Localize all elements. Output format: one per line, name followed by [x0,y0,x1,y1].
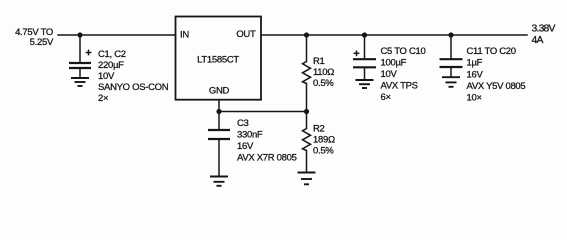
svg-text:AVX Y5V 0805: AVX Y5V 0805 [467,81,526,92]
svg-text:C11 TO C20: C11 TO C20 [467,46,516,57]
ground R2 [298,173,316,185]
svg-text:LT1585CT: LT1585CT [197,55,239,66]
svg-text:3.38V: 3.38V [532,24,556,35]
svg-text:10V: 10V [381,69,398,80]
ground C3 [210,177,228,186]
node VIN label 4.75V TO 5.25V [15,27,54,48]
regulator U1 LT1585CT [176,17,262,100]
svg-text:110Ω: 110Ω [313,67,334,78]
node VOUT label 3.38V 4A [532,24,556,47]
svg-text:10×: 10× [467,93,482,104]
node junction GND-C3 [216,109,221,114]
svg-text:16V: 16V [467,70,484,81]
svg-text:1µF: 1µF [467,58,483,69]
node junction C1 [77,32,82,37]
ground C5 [356,80,374,88]
svg-text:100µF: 100µF [381,58,407,69]
wire output rail [261,34,527,36]
label R1 values [313,56,334,89]
label C3 values [237,118,297,164]
capacitor C11-C20 [440,35,463,76]
svg-text:C1, C2: C1, C2 [98,49,126,60]
svg-text:6×: 6× [381,92,391,103]
resistor R1 [303,35,311,112]
svg-text:4A: 4A [532,35,544,46]
node junction C5 [362,32,367,37]
capacitor C5-C10 [353,35,376,79]
label C11 values [467,46,526,104]
svg-text:SANYO OS-CON: SANYO OS-CON [98,82,169,93]
svg-text:R1: R1 [313,56,325,67]
label C1 C2 values [98,49,169,104]
svg-text:10V: 10V [98,71,115,82]
svg-text:OUT: OUT [236,29,256,40]
label R2 values [313,124,335,157]
svg-text:0.5%: 0.5% [313,146,334,157]
svg-text:C5 TO C10: C5 TO C10 [381,46,426,57]
svg-text:2×: 2× [98,93,108,104]
svg-text:IN: IN [180,29,189,40]
svg-text:220µF: 220µF [98,60,124,71]
node junction R1 top [304,32,309,37]
wire ADJ node line [219,111,307,113]
wire GND pin [218,100,220,112]
capacitor C1 C2 [69,35,91,77]
svg-text:5.25V: 5.25V [30,37,54,48]
svg-text:0.5%: 0.5% [313,78,334,89]
svg-text:GND: GND [209,86,230,97]
svg-text:AVX X7R 0805: AVX X7R 0805 [237,153,297,164]
ground C1 [71,78,89,86]
svg-text:C3: C3 [237,118,249,129]
node junction C11 [448,32,453,37]
label C5 values [381,46,426,103]
resistor R2 [303,112,311,172]
ground C11 [442,77,460,87]
svg-text:16V: 16V [237,141,254,152]
wire input rail [58,34,176,36]
svg-text:R2: R2 [313,124,325,135]
svg-text:AVX TPS: AVX TPS [381,81,418,92]
svg-text:189Ω: 189Ω [313,135,335,146]
node junction ADJ-R2 [304,109,309,114]
svg-text:330nF: 330nF [237,130,263,141]
capacitor C3 [208,112,230,176]
